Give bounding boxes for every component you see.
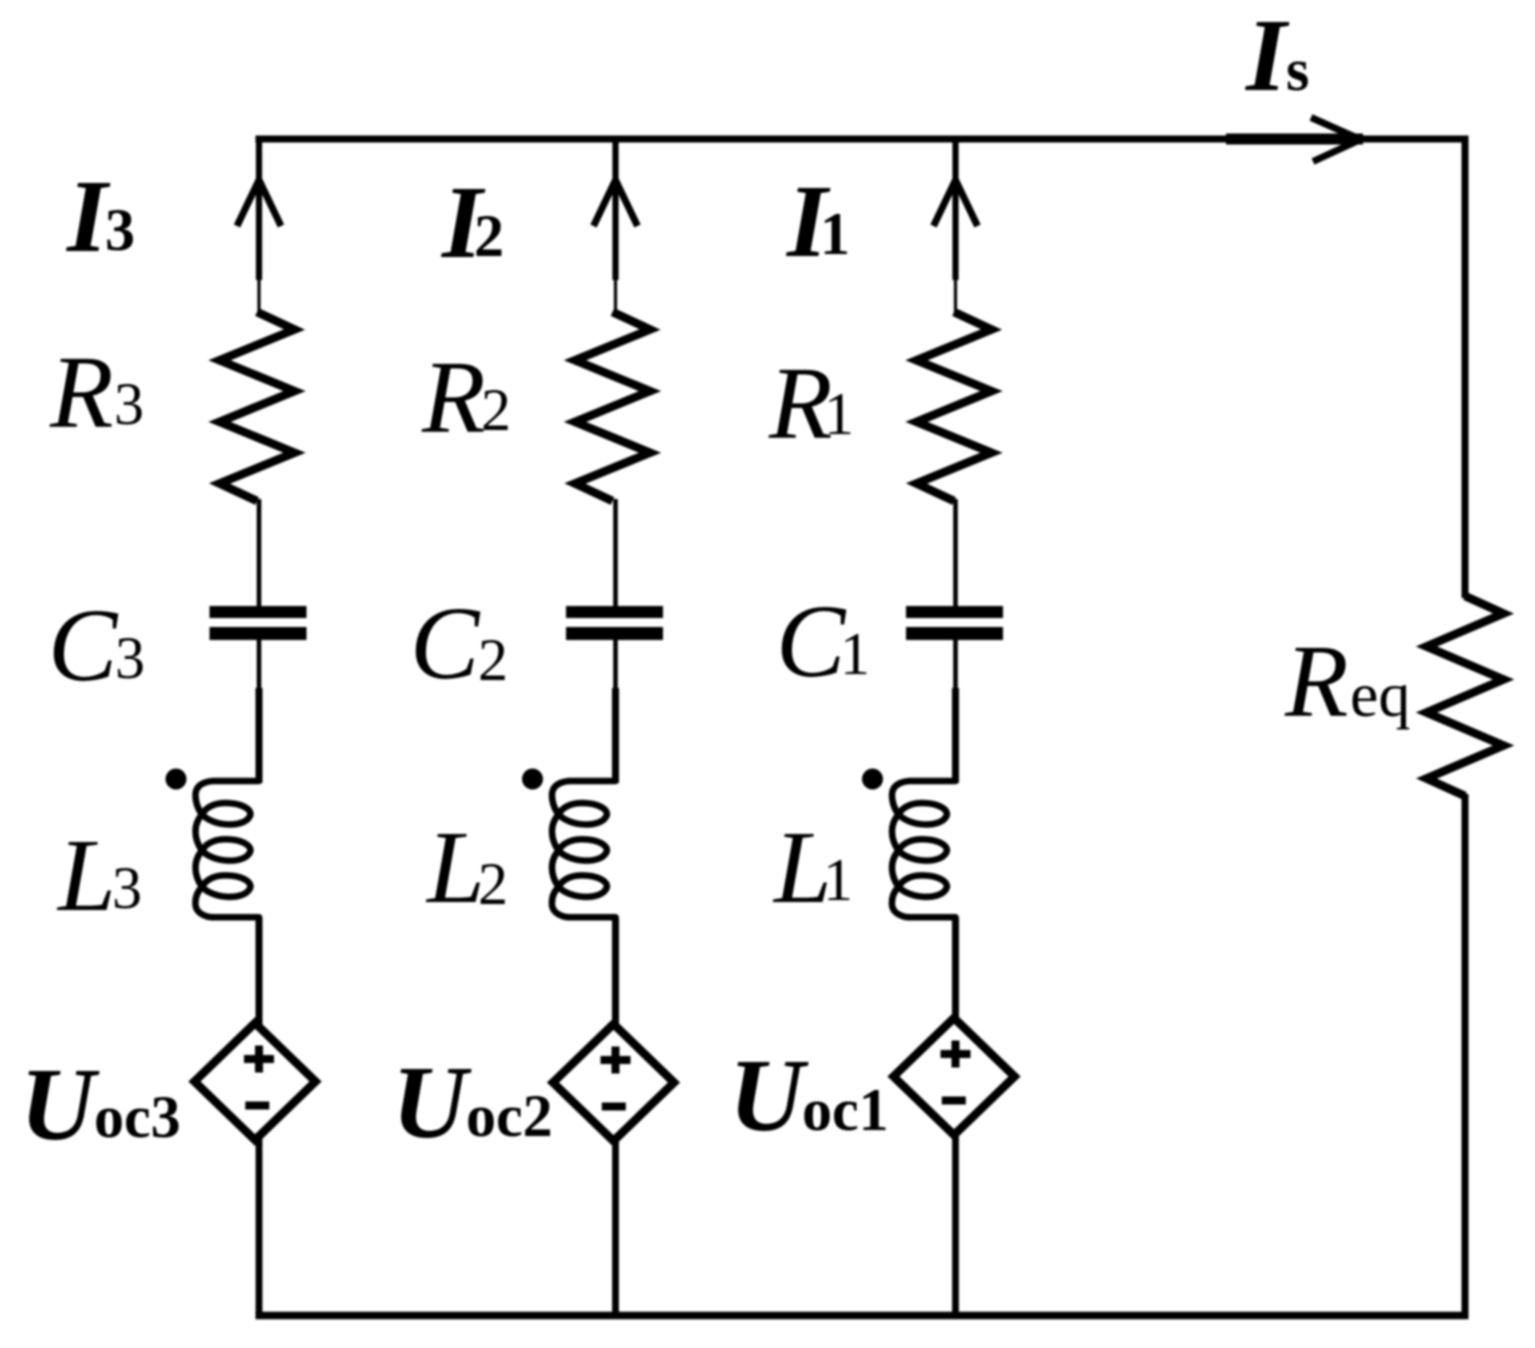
wire: branch 3 capacitor to inductor (thin part) [257,639,262,690]
svg-text:C: C [410,586,481,701]
capacitor C1 top plate [906,606,1003,618]
source Uoc3 minus sign [245,1102,269,1110]
wire: branch 3 top stub from top bus [256,136,262,281]
wire: branch 1 inductor to source [952,918,959,1025]
current arrow Is on top bus (pointing right) [1226,134,1363,145]
svg-text:1: 1 [823,847,853,913]
svg-text:2: 2 [481,377,511,443]
svg-text:oc1: oc1 [802,1077,889,1143]
label L1 [772,810,853,925]
resistor R1 [917,312,992,501]
label R3 [49,335,144,450]
wire: branch 1 resistor to capacitor [953,499,958,607]
svg-text:R: R [49,335,114,450]
svg-text:C: C [776,584,847,699]
wire: right side upper segment [1462,136,1469,599]
wire: branch 1 capacitor to inductor (thick part) [952,688,959,783]
wire: branch 3 source to bottom bus [256,1134,263,1319]
svg-text:oc2: oc2 [466,1083,553,1149]
source Uoc1 minus sign [942,1097,966,1105]
svg-text:C: C [48,588,119,703]
svg-text:R: R [768,346,833,461]
label C1 [776,584,870,699]
wire: branch 1 top stub from top bus [952,136,958,281]
capacitor C2 bottom plate [566,627,663,640]
svg-text:U: U [392,1045,472,1160]
svg-text:L: L [56,818,116,933]
wire: branch 2 top stub from top bus [612,136,618,281]
dependent source Uoc3 diamond [195,1023,316,1140]
inductor L2 polarity dot [522,769,543,790]
wire: branch 1 source to bottom bus [952,1129,959,1319]
source Uoc2 minus sign [602,1103,626,1111]
resistor Req [1427,596,1504,796]
label Req [1284,624,1410,739]
wire: branch 2 capacitor to inductor (thick part) [612,688,619,783]
svg-text:3: 3 [115,625,145,691]
label Uoc2 [392,1045,553,1160]
label R2 [421,340,511,455]
current arrow I3 (upward) on branch 3 [237,180,281,226]
label L3 [56,818,142,933]
label Uoc3 [20,1047,181,1162]
capacitor C1 bottom plate [906,627,1003,640]
inductor L1 coil [892,781,956,917]
wire: branch 3 thin segment into resistor [257,278,260,313]
source Uoc1 plus sign [941,1041,971,1068]
wire: branch 2 capacitor to inductor (thin part) [613,639,618,690]
label Is (source current) [1244,0,1309,113]
inductor L3 coil [195,781,259,917]
wire: branch 3 inductor to source [256,918,263,1030]
wire: right side lower segment [1462,794,1469,1319]
wire: bottom bus (common node) [256,1312,1469,1320]
wire: branch 2 source to bottom bus [612,1135,619,1319]
label I1 [785,164,850,279]
label L2 [425,810,508,925]
svg-text:1: 1 [824,381,854,447]
inductor L1 polarity dot [862,769,883,790]
svg-text:1: 1 [820,201,850,267]
svg-text:R: R [1284,624,1349,739]
label Uoc1 [729,1038,889,1153]
wire: branch 2 thin segment into resistor [614,278,617,313]
svg-text:3: 3 [112,855,142,921]
capacitor C3 bottom plate [210,627,307,640]
label R1 [768,346,854,461]
svg-text:2: 2 [478,851,508,917]
svg-text:s: s [1286,37,1309,103]
source Uoc3 plus sign [244,1046,274,1073]
current arrow I2 (upward) on branch 2 [594,180,638,226]
inductor L2 coil [552,781,616,917]
svg-text:eq: eq [1350,659,1410,730]
current arrow I1 (upward) on branch 1 [934,180,978,226]
svg-text:3: 3 [114,371,144,437]
capacitor C2 top plate [566,606,663,618]
wire: branch 3 capacitor to inductor (thick part) [256,688,263,783]
resistor R3 [220,312,295,501]
svg-text:U: U [20,1047,100,1162]
svg-text:L: L [425,810,485,925]
svg-text:1: 1 [840,621,870,687]
svg-text:oc3: oc3 [94,1084,181,1150]
svg-text:U: U [729,1038,809,1153]
svg-text:2: 2 [474,203,504,269]
dependent source Uoc1 diamond [894,1018,1015,1135]
wire: branch 3 resistor to capacitor [257,499,262,607]
svg-text:2: 2 [478,627,508,693]
svg-text:R: R [421,340,486,455]
capacitor C3 top plate [210,606,307,618]
label C3 [48,588,145,703]
source Uoc2 plus sign [601,1047,631,1074]
wire: branch 1 capacitor to inductor (thin part) [953,639,958,690]
label I3 [65,159,135,274]
svg-text:I: I [1244,0,1290,113]
wire: branch 1 thin segment into resistor [954,278,957,313]
resistor R2 [575,312,650,501]
label I2 [440,165,504,280]
wire: branch 2 resistor to capacitor [613,499,618,607]
svg-text:3: 3 [105,197,135,263]
wire: top bus (node between branches and Req) [256,136,1469,143]
label C2 [410,586,508,701]
dependent source Uoc2 diamond [553,1024,674,1141]
inductor L3 polarity dot [166,769,187,790]
wire: branch 2 inductor to source [612,918,619,1031]
